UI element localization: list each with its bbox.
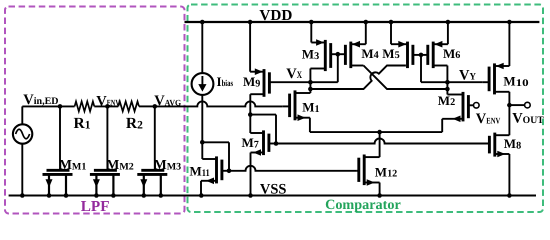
input transistor M2	[442, 92, 473, 122]
MOS capacitor MM3	[137, 104, 167, 198]
current source Ibias	[192, 20, 214, 143]
load transistor M3 (PMOS)	[310, 39, 337, 71]
wire M7 source to VSS	[250, 153, 252, 196]
wire: crossing - M4 drain to VY (straight diagonal)	[364, 66, 448, 90]
wire: VX vertical node	[308, 69, 313, 94]
wire M2 source down to tail	[441, 119, 443, 132]
input transistor M1	[282, 90, 310, 121]
resistor R1	[75, 102, 95, 112]
wire: tail line M1/M2 sources to M12 drain	[310, 130, 442, 157]
wire M5 source to VDD	[390, 22, 392, 44]
AC source Vin,ED	[13, 106, 32, 197]
output transistor M10 (PMOS)	[483, 63, 510, 95]
wire: Ibias to M11 drain+gate (diode)	[200, 140, 231, 173]
MOS capacitor MM2	[90, 104, 120, 198]
svg-text:VDD: VDD	[259, 7, 292, 24]
wire: bias line M7 gate to M8 gate, hop over M12 drain	[276, 139, 488, 144]
wire M9 source to VDD	[249, 22, 251, 72]
wire R2 to VAVG node	[139, 105, 155, 107]
wire: M11/M12 gate line with hop over M7 source	[229, 166, 356, 171]
wire: VSS/ground rail (continuous across both blocks)	[9, 194, 536, 196]
resistor R2	[118, 102, 139, 112]
wire M8 source to VSS	[508, 154, 510, 196]
load transistor M5 (PMOS, cross-coupled)	[391, 41, 421, 68]
tail transistor M12	[356, 155, 379, 186]
wire: M9 drain down, branch to M7 drain+gate	[248, 94, 278, 146]
load transistor M4 (PMOS, cross-coupled)	[338, 41, 366, 68]
wire: VDD rail	[185, 21, 540, 23]
transistor M11	[201, 156, 229, 184]
terminal VOUT	[525, 102, 531, 108]
transistor M9 (PMOS bias)	[250, 68, 310, 96]
wire M12 source to VSS	[379, 183, 381, 196]
wire: VY vertical node	[445, 66, 450, 95]
LPF dashed border box	[5, 7, 185, 214]
transistor M7	[251, 130, 277, 155]
output transistor M8	[488, 133, 509, 158]
wire: crossing - VX to M5 drain (diagonal with hop)	[310, 66, 406, 90]
wire: VAVG line into comparator, hops over Ibias and M9-drain verticals, to M1 gate	[155, 101, 282, 106]
wire: VOUT node M10 drain to M8 drain	[507, 92, 524, 135]
svg-text:VSS: VSS	[260, 181, 287, 197]
terminal VENV at M2 gate	[474, 103, 480, 109]
MOS capacitor MM1	[43, 104, 73, 198]
wire M4 source to VDD	[365, 22, 367, 44]
Comparator dashed border box	[188, 5, 544, 213]
svg-text:LPF: LPF	[81, 198, 110, 215]
load transistor M6 (PMOS)	[421, 41, 448, 68]
wire: VX to M3/M4 gates	[310, 52, 340, 82]
wire: main signal line Vin->R1	[22, 105, 74, 107]
wire R1 to VENV node	[94, 105, 118, 107]
wire M10 source to VDD	[508, 22, 510, 66]
wire M3 source to VDD	[310, 22, 312, 43]
wire: M5/M6 gates to VY	[419, 53, 448, 83]
wire M6 source to VDD	[447, 22, 449, 44]
svg-text:Comparator: Comparator	[325, 197, 401, 213]
wire M1 source down to tail	[309, 118, 311, 132]
wire M11 source to VSS	[200, 181, 202, 196]
wire: VY to M10 gate	[447, 81, 482, 83]
